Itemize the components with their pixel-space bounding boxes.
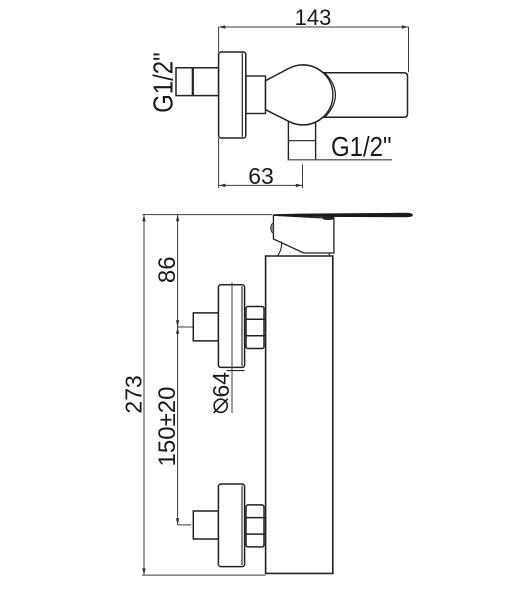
svg-text:150±20: 150±20	[154, 387, 181, 467]
svg-text:G1/2": G1/2"	[149, 52, 179, 113]
svg-text:143: 143	[295, 5, 332, 30]
svg-text:273: 273	[121, 375, 147, 413]
svg-text:64: 64	[208, 372, 234, 398]
svg-text:G1/2": G1/2"	[331, 133, 392, 163]
svg-text:86: 86	[154, 256, 181, 283]
svg-text:63: 63	[248, 163, 274, 189]
